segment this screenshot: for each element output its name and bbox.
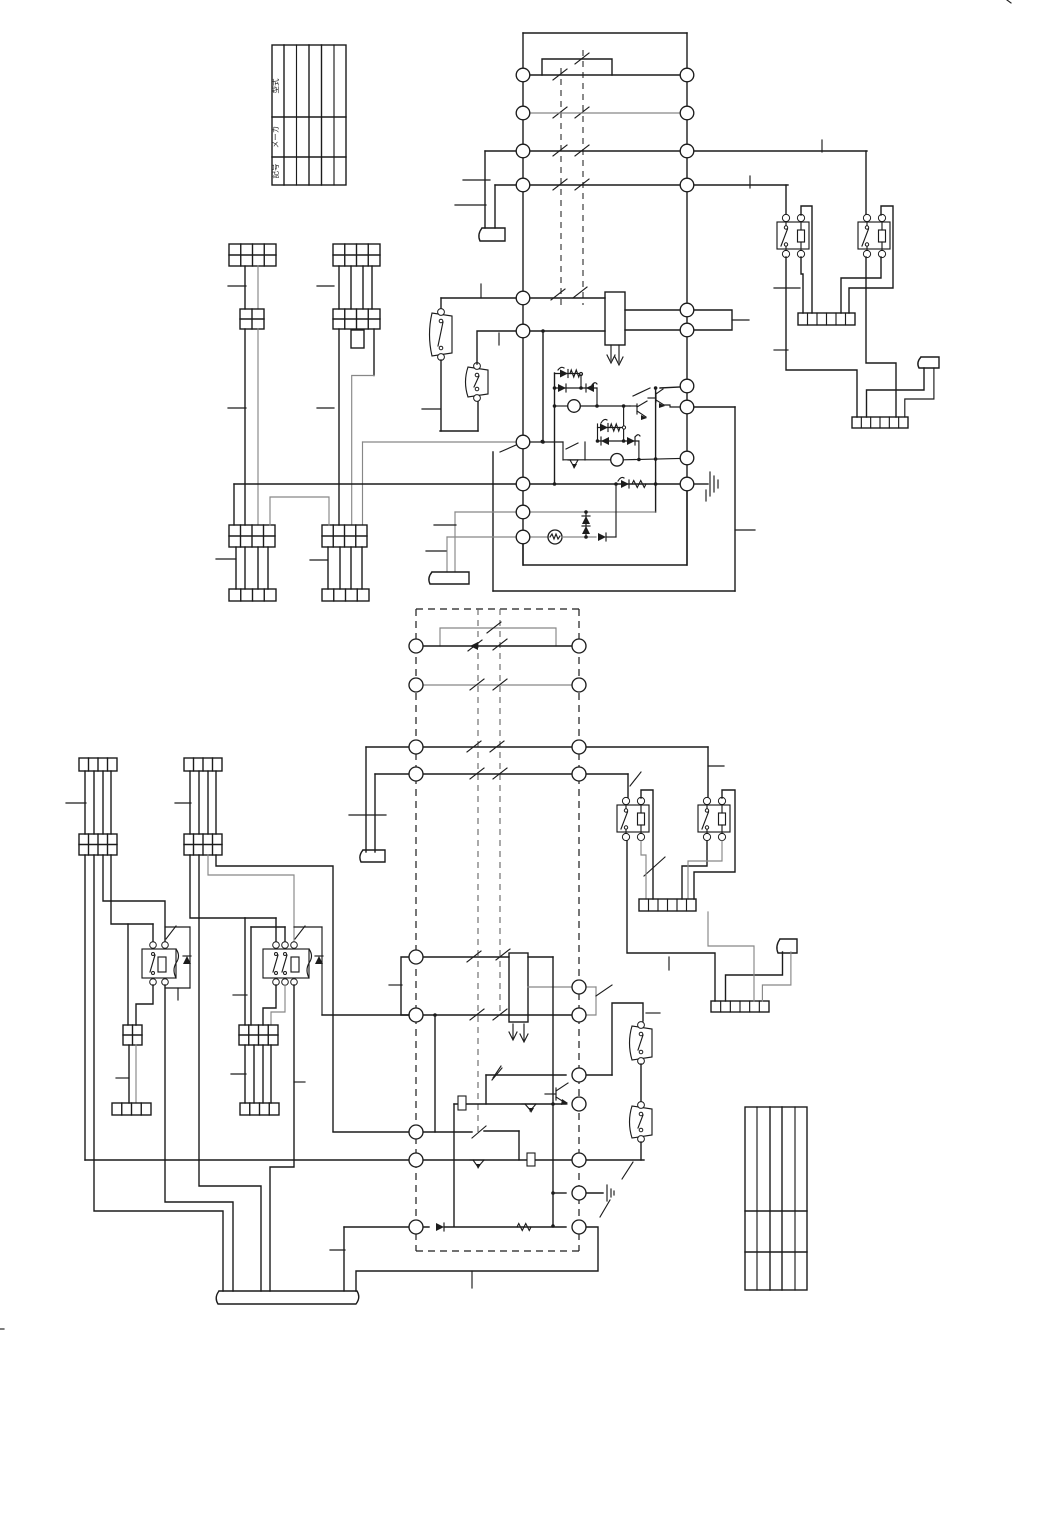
wire A long 1	[244, 329, 246, 525]
connector strip R2b	[240, 1103, 279, 1115]
contact row y113	[553, 107, 567, 118]
transistor Q3	[522, 1103, 536, 1105]
wire riser to relay K1	[785, 185, 787, 218]
pin bleft 685	[409, 678, 423, 692]
wire K3 lower-left	[627, 841, 715, 1001]
tick	[231, 1073, 246, 1075]
wire	[253, 1045, 255, 1103]
fuse F2	[527, 1153, 535, 1166]
wire left drop x485	[484, 151, 486, 228]
cable dashed line 1	[560, 68, 562, 305]
tick	[317, 285, 334, 287]
wire x455 drop	[453, 1104, 455, 1226]
switch S4	[630, 1106, 653, 1138]
pin bright 1193	[572, 1186, 586, 1200]
wire row 1075 right	[586, 1074, 612, 1076]
lamp L1 row	[555, 405, 568, 407]
wire K4 bracket	[694, 790, 735, 899]
wire T2 to pin386	[660, 387, 680, 388]
wire row 185	[495, 184, 788, 186]
slash	[644, 857, 665, 876]
wire K3 lower-right	[641, 841, 646, 899]
connector trapezoid inner	[429, 572, 469, 584]
wire	[640, 1142, 642, 1160]
connector strip C2b	[322, 589, 369, 601]
wire top loop	[523, 32, 687, 34]
tick bar	[455, 204, 486, 206]
pin left 185	[516, 178, 530, 192]
wire	[640, 1064, 642, 1102]
wire	[244, 266, 246, 309]
parts table (bottom right)	[745, 1107, 807, 1290]
tick	[216, 558, 236, 560]
ground G2	[606, 1185, 608, 1201]
tick	[434, 524, 456, 526]
wire riser to relay K2	[865, 151, 867, 218]
tick	[228, 407, 246, 409]
wire A long 2	[257, 329, 259, 525]
slash	[622, 1162, 633, 1179]
machine frame right	[734, 407, 736, 591]
wire drop 1075-1104	[485, 1075, 487, 1104]
wire	[244, 1045, 246, 1103]
wire drop x366	[365, 747, 367, 852]
tick bar	[463, 179, 490, 181]
wire row442 harness	[363, 441, 517, 443]
wire row 1227	[344, 1226, 429, 1228]
connector block R2a	[239, 1025, 278, 1045]
branch y373 switch-diode-resistor	[555, 373, 582, 375]
connector block D2b	[184, 834, 222, 855]
lamp L2 row	[563, 459, 610, 461]
pin bright 685	[572, 678, 586, 692]
connector block B2	[333, 309, 380, 329]
inner dashed 1	[477, 609, 479, 1134]
transistor Q2	[568, 459, 578, 461]
wire row 685	[423, 684, 572, 686]
wire B pin4 jog	[373, 329, 375, 376]
connector strip R1b	[112, 1103, 151, 1115]
pin right 151	[680, 144, 694, 158]
pin right 407	[680, 400, 694, 414]
switch arm over T1	[633, 388, 650, 396]
wire x616 up	[615, 484, 617, 537]
harness dashed box	[415, 609, 417, 1251]
svg-text:型式: 型式	[270, 78, 280, 93]
pin bleft 1015	[409, 1008, 423, 1022]
slash	[600, 1200, 610, 1217]
pin bright 646	[572, 639, 586, 653]
tick	[426, 550, 446, 552]
tick	[294, 1081, 305, 1083]
fuse F1	[458, 1096, 466, 1110]
connector stub	[351, 330, 364, 348]
wire rect to right pin 310	[625, 309, 680, 311]
wire pin298 to switch S1	[440, 298, 442, 310]
wire	[215, 771, 217, 834]
wire x553 long	[552, 957, 554, 1226]
tick	[66, 802, 86, 804]
wire B long 1	[338, 329, 340, 525]
bypass loop row1	[542, 59, 612, 75]
wire row 1015	[423, 1014, 572, 1016]
relay K2	[858, 222, 890, 249]
pin left 484	[516, 477, 530, 491]
pin bright 1160	[572, 1153, 586, 1167]
connector block C1	[229, 525, 275, 547]
connector trapezoid left	[479, 228, 505, 241]
wire K2 lower-right to strip1	[841, 257, 881, 313]
arrow down a	[512, 1024, 514, 1038]
pin left 113	[516, 106, 530, 120]
tick	[480, 284, 482, 298]
relay K3	[617, 805, 649, 832]
wire R1 lower-left	[136, 985, 153, 1025]
wire drop x375	[374, 774, 376, 852]
wire feed relay K4	[707, 747, 709, 801]
rail x623 to sub2	[623, 406, 625, 441]
pin left 151	[516, 144, 530, 158]
wire K2 lower-left to strip2	[866, 257, 896, 417]
slash	[295, 926, 305, 939]
wire gray link	[708, 912, 754, 1001]
switch box sub2	[562, 442, 564, 460]
relay R2 bracket 1	[244, 918, 246, 1025]
tick	[732, 319, 749, 321]
wire row 442	[530, 441, 563, 443]
wire d2-4 to pin1132	[216, 855, 333, 1131]
wire row 646	[423, 645, 572, 647]
tick	[498, 333, 500, 345]
wire R2 ll	[263, 985, 276, 1025]
cable dashed line 2	[582, 50, 584, 305]
pin bleft 957	[409, 950, 423, 964]
pin right 458	[680, 451, 694, 465]
tick	[774, 349, 788, 351]
connector header D1	[79, 758, 117, 771]
wire row 1193	[553, 1192, 566, 1194]
wire K3 bracket	[641, 790, 653, 899]
wire row 747	[366, 746, 708, 748]
wire S1 down	[440, 360, 442, 431]
pin left 331	[516, 324, 530, 338]
transistor Q4	[555, 1088, 557, 1100]
pin bleft 747	[409, 740, 423, 754]
wire K4 lower-left	[682, 841, 707, 899]
terminal strip TS2	[852, 417, 908, 428]
wire U link	[270, 497, 329, 525]
arrow down b	[523, 1024, 525, 1040]
pin left 537	[516, 530, 530, 544]
wire	[135, 1045, 137, 1103]
tick	[349, 814, 386, 816]
tick	[310, 559, 327, 561]
right bracket 987-1015	[586, 987, 596, 1015]
wire	[267, 547, 269, 589]
wire R2 lm	[271, 985, 285, 1025]
pin right 484	[680, 477, 694, 491]
wire row 298	[441, 297, 516, 299]
connector header D2	[184, 758, 222, 771]
svg-text:記号: 記号	[270, 164, 280, 179]
wire trap riser 1	[454, 512, 456, 572]
contact row y185	[553, 179, 567, 190]
wire d1-4 to R1 bracket	[111, 855, 153, 924]
wire row407 ext	[694, 406, 735, 408]
rail x597	[596, 388, 598, 406]
tick	[646, 1012, 660, 1014]
branch y388 diodes	[555, 387, 598, 389]
tick	[774, 287, 800, 289]
right pin column	[686, 33, 688, 565]
left bracket rows 957-1015	[401, 957, 409, 1015]
wire long row 484	[234, 483, 516, 485]
contact row y75	[553, 69, 567, 80]
inner dashed 2	[499, 609, 501, 1015]
wire R2 lr to bus	[270, 985, 294, 1291]
arrow down 2	[618, 345, 620, 362]
connector block D1b	[79, 834, 117, 855]
wire	[338, 266, 340, 309]
connector trapezoid bottom-left	[360, 850, 385, 862]
tick	[389, 984, 402, 986]
rail x597b	[597, 424, 599, 441]
connector frame rect	[509, 953, 528, 1022]
wire x435 drop	[434, 1015, 436, 1132]
tick	[175, 802, 191, 804]
machine frame left	[492, 452, 494, 591]
pin bleft 774	[409, 767, 423, 781]
tick	[317, 407, 334, 409]
wire row 1075	[486, 1074, 566, 1076]
terminal strip TS4	[711, 1001, 769, 1012]
connector strip C1b	[229, 589, 276, 601]
wire	[327, 547, 329, 589]
wire	[361, 547, 363, 589]
wire row 484 inner	[530, 483, 680, 485]
pin bleft 1227	[409, 1220, 423, 1234]
pin left 75	[516, 68, 530, 82]
stub	[705, 490, 707, 501]
relay frame (vertical rect)	[605, 292, 625, 345]
wire	[198, 771, 200, 834]
rail x638	[638, 441, 640, 459]
svg-text:メーカ: メーカ	[271, 126, 280, 149]
rail x581	[580, 374, 582, 388]
wire feed relay K3	[627, 774, 629, 801]
wire	[371, 266, 373, 309]
pin bright 1104	[572, 1097, 586, 1111]
motor M	[530, 536, 548, 538]
wire d2-3 to R2	[208, 855, 294, 942]
contact row y151	[553, 145, 567, 156]
wire row 774	[375, 773, 628, 775]
wire	[207, 771, 209, 834]
wire	[84, 771, 86, 834]
terminal strip TS3	[639, 899, 696, 911]
ground bus bar	[216, 1291, 359, 1304]
wire	[93, 771, 95, 834]
pin bright 747	[572, 740, 586, 754]
edge mark left	[0, 1328, 4, 1330]
wire row 1227 right loop	[356, 1227, 598, 1291]
wire	[262, 1045, 264, 1103]
machine frame bottom	[493, 590, 735, 592]
connector stack B header	[333, 244, 380, 266]
wire trapezoid to TS2 a	[867, 368, 925, 417]
machine frame diagonal	[500, 442, 523, 452]
ground G1	[694, 483, 708, 485]
pin right 386	[680, 379, 694, 393]
wire d2-2 to bus	[199, 855, 261, 1291]
wire row 1132	[333, 1131, 472, 1133]
connector block R1a	[123, 1025, 142, 1045]
tick	[821, 140, 823, 152]
tick	[233, 994, 247, 996]
branch y441 diodes	[598, 440, 639, 442]
wire R2 diode to pin1015	[322, 1014, 409, 1016]
wire left drop x495	[494, 185, 496, 228]
wire bottom loop	[523, 490, 687, 565]
transistor T1	[636, 404, 638, 414]
pin right 75	[680, 68, 694, 82]
connector block A2	[240, 309, 264, 329]
connector block C2	[322, 525, 367, 547]
wire d2-1 to R2 bracket	[190, 855, 245, 918]
pin bright 987	[572, 980, 586, 994]
rail x554	[554, 373, 556, 484]
wire	[102, 771, 104, 834]
wire K4 lower-right	[688, 841, 722, 899]
wire row 957	[423, 956, 509, 958]
branch y427 diode-resistor	[598, 427, 625, 429]
pin left 298	[516, 291, 530, 305]
pin bleft 1160	[409, 1153, 423, 1167]
wire row 537 left	[447, 536, 516, 538]
wire	[235, 547, 237, 589]
slash	[596, 985, 612, 996]
wire row484 drop	[233, 484, 235, 525]
wire S2 down	[477, 401, 479, 431]
wire row 151 to right relay	[485, 150, 867, 152]
tick	[708, 765, 724, 767]
pin left 442	[516, 435, 530, 449]
tick	[735, 529, 755, 531]
left pin column	[522, 33, 524, 565]
tick	[116, 1077, 129, 1079]
slash	[166, 926, 176, 939]
transistor T2	[655, 393, 657, 402]
pin bleft 646	[409, 639, 423, 653]
wire K2 bracket to strip1	[849, 206, 893, 313]
pin right 185	[680, 178, 694, 192]
diode DR2	[294, 926, 322, 928]
wire	[350, 266, 352, 309]
wire row 987	[528, 986, 572, 988]
arrow down 1	[610, 345, 612, 360]
stub	[471, 1271, 473, 1288]
wire drop x519	[518, 1131, 520, 1160]
wire trap to TS4 b	[762, 952, 791, 1001]
relay R1 bracket left	[127, 924, 129, 1025]
pin right 310	[680, 303, 694, 317]
wire row 331	[530, 330, 605, 332]
wire row 1160	[85, 1159, 409, 1161]
wire d1-3 to relay R1	[103, 855, 165, 942]
wire trapezoid to TS2 b	[905, 368, 934, 417]
rail x655	[655, 388, 657, 512]
wire trap to TS4 a	[726, 952, 783, 1001]
connector trapezoid K-side	[777, 939, 797, 953]
switch S3	[630, 1026, 653, 1060]
diode D5	[598, 533, 606, 541]
wire d1-2 to bus	[94, 855, 223, 1291]
wire K1 bracket to strip	[801, 206, 812, 313]
pin right 113	[680, 106, 694, 120]
relay K4	[698, 805, 730, 832]
wire R1 lower-right long	[165, 985, 233, 1291]
wire	[257, 266, 259, 309]
wire	[128, 1045, 130, 1103]
wire	[362, 266, 364, 309]
switch S1	[430, 313, 453, 356]
wire S2 feed from pin 331	[477, 331, 516, 364]
pin bright 774	[572, 767, 586, 781]
pin bleft 1132	[409, 1125, 423, 1139]
wire	[270, 1045, 272, 1103]
wire bus riser x344	[343, 1227, 345, 1291]
pin bright 1075	[572, 1068, 586, 1082]
wire motor to diode	[562, 536, 596, 538]
relay R2	[263, 949, 309, 978]
wire T2 emitter to pin407	[664, 405, 680, 407]
tick	[749, 176, 751, 188]
right bracket box	[694, 310, 732, 330]
wire	[350, 547, 352, 589]
diode DR1	[165, 926, 190, 928]
wire	[257, 547, 259, 589]
wire d1-1 to row1160	[84, 855, 86, 1160]
pin bright 1227	[572, 1220, 586, 1234]
zener pair	[585, 512, 587, 537]
edge mark top right	[1007, 0, 1011, 3]
transistor Q5	[470, 1159, 484, 1161]
wire bottom rail	[440, 430, 478, 432]
connector trapezoid right	[918, 357, 939, 368]
wire	[244, 547, 246, 589]
pin left 512	[516, 505, 530, 519]
wire	[189, 771, 191, 834]
relay R2 bracket 2	[250, 927, 252, 1025]
terminal strip TS1	[798, 313, 855, 325]
wire row 1104	[454, 1103, 566, 1105]
relay R1	[142, 949, 176, 978]
pin right 330	[680, 323, 694, 337]
bypass loop bottom section	[440, 628, 556, 646]
connector stack A header	[229, 244, 276, 266]
wire K1 lower-left to strip2	[786, 257, 857, 417]
switch S2	[466, 367, 489, 397]
parts table (top left)	[272, 45, 346, 185]
tick	[228, 285, 246, 287]
wire rect to right pin 330	[625, 329, 680, 331]
wire x543 drop	[542, 331, 544, 442]
tick	[177, 988, 179, 1000]
relay K1	[777, 222, 809, 249]
tick	[668, 957, 670, 970]
wire	[339, 547, 341, 589]
wire trap riser 2	[446, 537, 448, 572]
